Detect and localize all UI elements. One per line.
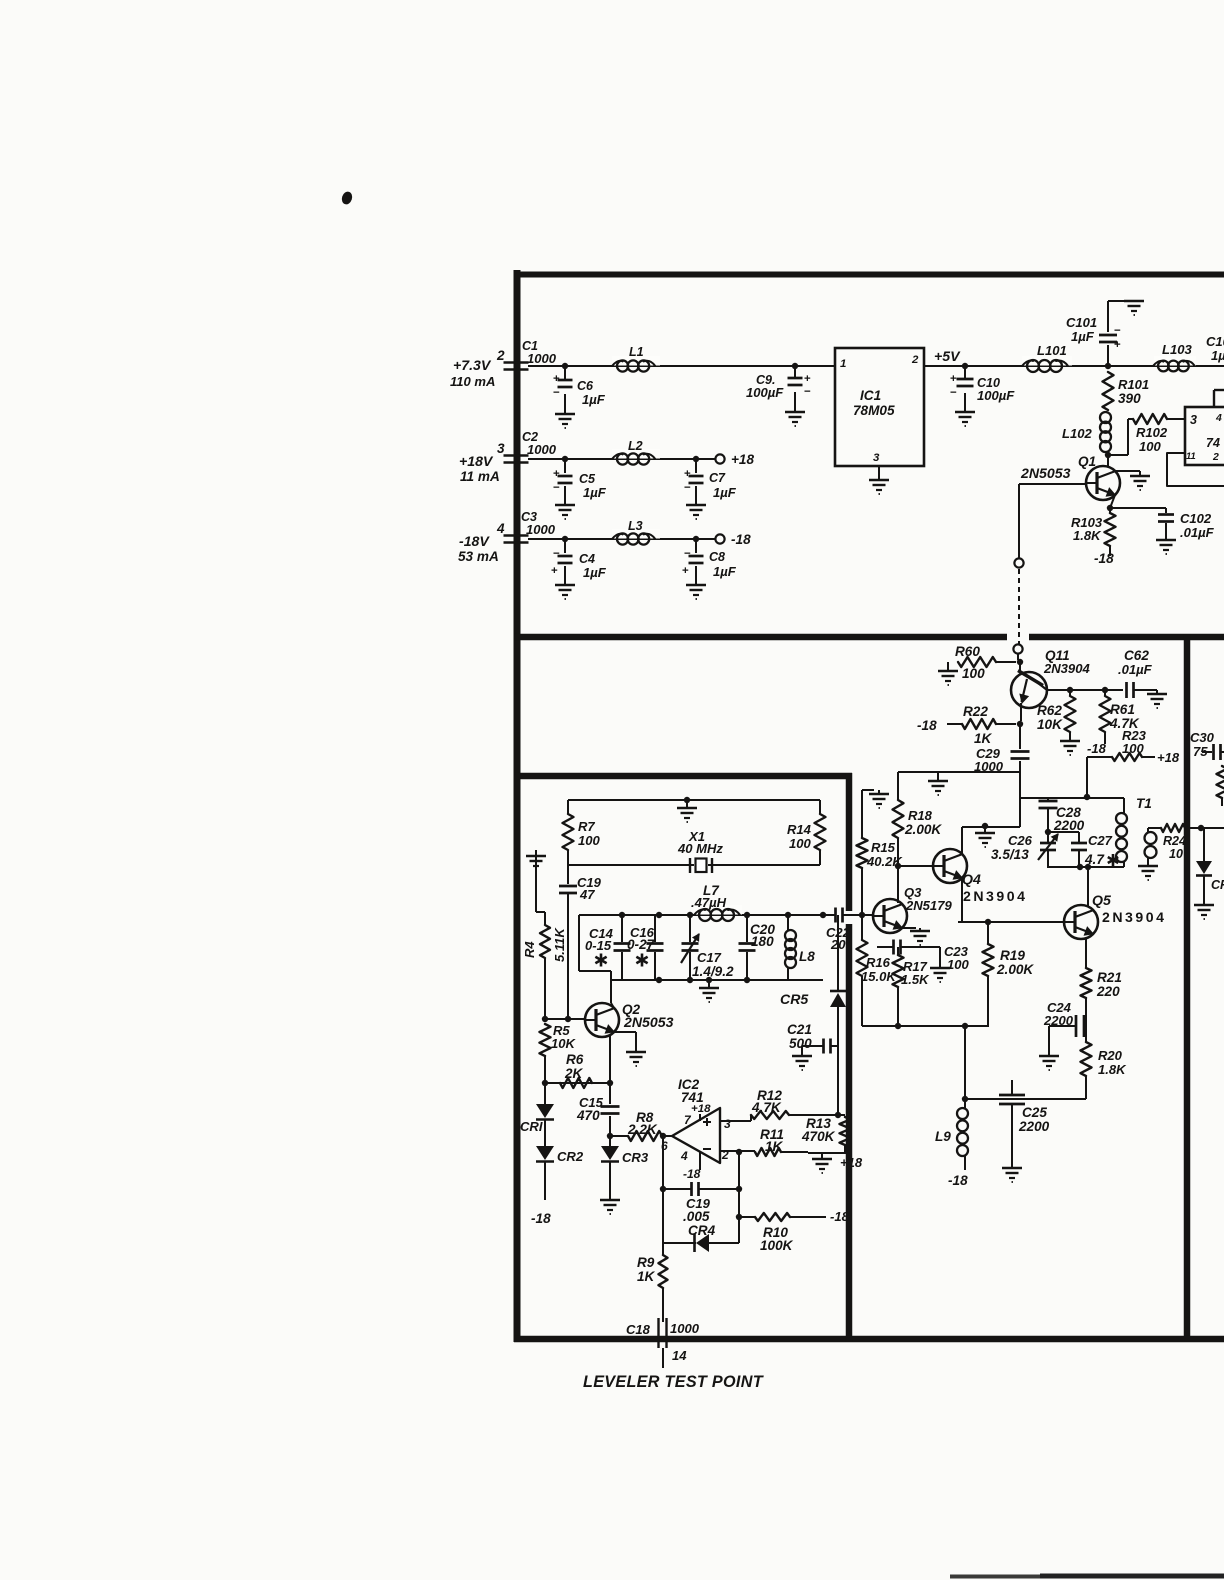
svg-text:180: 180 — [751, 934, 774, 949]
svg-text:1.8K: 1.8K — [1098, 1062, 1127, 1077]
svg-text:1.4/9.2: 1.4/9.2 — [692, 964, 734, 979]
svg-text:+: + — [950, 373, 957, 385]
svg-text:C7: C7 — [709, 471, 726, 485]
svg-text:1000: 1000 — [526, 522, 556, 537]
svg-text:11: 11 — [1186, 450, 1196, 461]
svg-text:R20: R20 — [1098, 1048, 1123, 1063]
svg-text:R21: R21 — [1097, 970, 1122, 985]
svg-text:+: + — [551, 565, 558, 577]
svg-text:4: 4 — [1215, 413, 1222, 424]
svg-text:-18: -18 — [531, 1211, 551, 1226]
svg-text:+: + — [682, 565, 689, 577]
svg-text:C104: C104 — [1206, 334, 1224, 349]
svg-text:1K: 1K — [765, 1139, 784, 1154]
svg-text:+: + — [684, 468, 691, 480]
svg-text:+: + — [553, 373, 560, 385]
svg-text:Q4: Q4 — [962, 871, 981, 887]
svg-text:C101: C101 — [1066, 315, 1097, 330]
svg-text:L8: L8 — [799, 949, 815, 964]
svg-text:1µF: 1µF — [583, 485, 607, 500]
svg-text:C5: C5 — [579, 472, 596, 486]
svg-text:-18: -18 — [830, 1209, 850, 1224]
svg-text:R14: R14 — [787, 822, 812, 837]
svg-text:1000: 1000 — [527, 442, 557, 457]
svg-text:78M05: 78M05 — [853, 403, 895, 418]
svg-text:CR4: CR4 — [688, 1223, 716, 1238]
svg-text:R9: R9 — [637, 1255, 655, 1270]
svg-text:-18: -18 — [1087, 741, 1107, 756]
svg-text:40 MHz: 40 MHz — [677, 841, 723, 856]
svg-text:2: 2 — [496, 348, 505, 363]
svg-text:0-27: 0-27 — [627, 937, 656, 952]
svg-text:10K: 10K — [1037, 717, 1063, 732]
svg-text:15.0K: 15.0K — [861, 969, 897, 984]
svg-text:R102: R102 — [1136, 425, 1168, 440]
svg-text:2200: 2200 — [1053, 818, 1085, 833]
svg-text:1µF: 1µF — [1211, 348, 1224, 363]
svg-text:53 mA: 53 mA — [458, 549, 499, 564]
svg-text:1µF: 1µF — [713, 485, 737, 500]
svg-text:4.7K: 4.7K — [751, 1100, 782, 1115]
svg-text:1000: 1000 — [670, 1321, 700, 1336]
svg-text:2.2K: 2.2K — [627, 1122, 658, 1137]
svg-text:-18V: -18V — [459, 533, 490, 549]
svg-text:CR3: CR3 — [622, 1150, 649, 1165]
svg-text:C4: C4 — [579, 552, 595, 566]
svg-text:3: 3 — [724, 1117, 731, 1131]
svg-text:100: 100 — [1122, 741, 1145, 756]
svg-text:4: 4 — [680, 1149, 688, 1163]
svg-text:C102: C102 — [1180, 511, 1212, 526]
svg-text:-18: -18 — [948, 1173, 968, 1188]
svg-text:2: 2 — [1212, 452, 1219, 463]
svg-text:10: 10 — [1169, 847, 1183, 861]
svg-text:−: − — [1114, 325, 1121, 337]
svg-text:Q5: Q5 — [1092, 892, 1112, 908]
svg-text:−: − — [684, 482, 691, 494]
svg-text:11 mA: 11 mA — [460, 469, 500, 484]
svg-text:R61: R61 — [1110, 702, 1135, 717]
svg-text:+5V: +5V — [934, 348, 961, 364]
svg-text:R101: R101 — [1118, 377, 1149, 392]
svg-text:1µF: 1µF — [583, 565, 607, 580]
svg-text:220: 220 — [1096, 984, 1120, 999]
svg-text:−: − — [553, 387, 560, 399]
svg-text:R7: R7 — [578, 819, 595, 834]
svg-text:−: − — [804, 386, 811, 398]
svg-text:47: 47 — [579, 887, 595, 902]
svg-text:CR2: CR2 — [557, 1149, 584, 1164]
svg-text:.01µF: .01µF — [1180, 525, 1215, 540]
svg-text:C30: C30 — [1190, 730, 1215, 745]
svg-text:+: + — [1114, 339, 1121, 351]
svg-text:+7.3V: +7.3V — [453, 357, 492, 373]
svg-text:L1: L1 — [629, 345, 644, 359]
svg-text:R19: R19 — [1000, 948, 1025, 963]
svg-text:R4: R4 — [522, 941, 537, 958]
svg-text:−: − — [950, 387, 957, 399]
svg-text:500: 500 — [789, 1036, 812, 1051]
svg-text:74: 74 — [1206, 436, 1220, 450]
svg-text:L2: L2 — [628, 439, 643, 453]
svg-text:R24: R24 — [1163, 834, 1186, 848]
svg-text:3.5/13: 3.5/13 — [991, 847, 1029, 862]
svg-text:100: 100 — [962, 666, 985, 681]
svg-text:2200: 2200 — [1043, 1013, 1074, 1028]
svg-text:10K: 10K — [551, 1036, 577, 1051]
svg-text:4: 4 — [496, 521, 505, 536]
svg-text:100µF: 100µF — [746, 385, 784, 400]
svg-text:.005: .005 — [683, 1209, 710, 1224]
svg-text:−: − — [553, 482, 560, 494]
svg-text:1: 1 — [840, 358, 846, 370]
svg-text:+18: +18 — [1157, 750, 1180, 765]
svg-text:C62: C62 — [1124, 648, 1149, 663]
svg-text:.01µF: .01µF — [1118, 662, 1153, 677]
svg-text:Q1: Q1 — [1078, 454, 1096, 469]
svg-text:5.11K: 5.11K — [552, 927, 567, 962]
svg-text:R6: R6 — [566, 1052, 584, 1067]
svg-text:3: 3 — [497, 441, 505, 456]
svg-text:+: + — [553, 468, 560, 480]
svg-text:470K: 470K — [801, 1129, 836, 1144]
svg-text:+18V: +18V — [459, 453, 494, 469]
svg-text:C21: C21 — [787, 1022, 812, 1037]
svg-text:100: 100 — [947, 957, 970, 972]
svg-text:IC1: IC1 — [860, 388, 881, 403]
svg-text:C26: C26 — [1008, 833, 1033, 848]
svg-text:100: 100 — [1139, 439, 1162, 454]
svg-text:CRI: CRI — [520, 1119, 543, 1134]
svg-text:-18: -18 — [683, 1167, 701, 1181]
svg-text:L9: L9 — [935, 1129, 951, 1144]
svg-text:2.00K: 2.00K — [996, 962, 1034, 977]
svg-text:3: 3 — [873, 452, 880, 464]
svg-text:1µF: 1µF — [1071, 329, 1095, 344]
svg-text:-18: -18 — [731, 532, 751, 547]
svg-text:T1: T1 — [1136, 796, 1152, 811]
svg-text:1.8K: 1.8K — [1073, 528, 1102, 543]
svg-text:1000: 1000 — [527, 351, 557, 366]
svg-text:CR5: CR5 — [780, 991, 809, 1007]
svg-text:2N3904: 2N3904 — [1102, 909, 1166, 925]
svg-text:0-15: 0-15 — [585, 938, 612, 953]
svg-text:C25: C25 — [1022, 1105, 1047, 1120]
svg-text:C8: C8 — [709, 550, 725, 564]
svg-text:100: 100 — [789, 836, 812, 851]
svg-text:1µF: 1µF — [582, 392, 606, 407]
svg-text:2: 2 — [911, 354, 919, 366]
svg-text:+18: +18 — [731, 452, 754, 467]
svg-text:C6: C6 — [577, 379, 594, 393]
svg-text:C27: C27 — [1088, 833, 1113, 848]
svg-text:2N5053: 2N5053 — [1020, 465, 1071, 481]
svg-text:C18: C18 — [626, 1322, 651, 1337]
svg-text:100µF: 100µF — [977, 388, 1015, 403]
svg-text:R16: R16 — [866, 955, 891, 970]
svg-text:CR: CR — [1211, 878, 1224, 892]
svg-text:110 mA: 110 mA — [450, 374, 495, 389]
svg-text:L102: L102 — [1062, 426, 1092, 441]
svg-text:LEVELER TEST POINT: LEVELER TEST POINT — [583, 1373, 765, 1391]
svg-text:14: 14 — [672, 1348, 687, 1363]
svg-text:2N3904: 2N3904 — [1043, 661, 1090, 676]
svg-text:2200: 2200 — [1018, 1119, 1050, 1134]
svg-text:C17: C17 — [697, 950, 722, 965]
svg-text:R18: R18 — [908, 808, 933, 823]
svg-text:1µF: 1µF — [713, 564, 737, 579]
svg-text:390: 390 — [1118, 391, 1141, 406]
svg-text:−: − — [553, 548, 560, 560]
svg-text:100K: 100K — [760, 1238, 794, 1253]
svg-text:100: 100 — [578, 833, 601, 848]
svg-text:L103: L103 — [1162, 342, 1192, 357]
svg-text:+18: +18 — [840, 1155, 863, 1170]
svg-text:−: − — [684, 548, 691, 560]
svg-text:.47µH: .47µH — [691, 895, 727, 910]
svg-text:1K: 1K — [974, 731, 993, 746]
svg-text:L3: L3 — [628, 519, 643, 533]
svg-text:2K: 2K — [564, 1066, 584, 1081]
svg-text:-18: -18 — [1094, 551, 1114, 566]
svg-text:+: + — [804, 373, 811, 385]
svg-text:R22: R22 — [963, 704, 988, 719]
svg-text:1K: 1K — [637, 1269, 656, 1284]
svg-text:-18: -18 — [917, 718, 937, 733]
svg-text:741: 741 — [681, 1090, 704, 1105]
svg-text:R62: R62 — [1037, 703, 1062, 718]
svg-text:470: 470 — [576, 1108, 600, 1123]
svg-text:2N5179: 2N5179 — [905, 898, 952, 913]
svg-text:R60: R60 — [955, 644, 980, 659]
svg-text:L101: L101 — [1037, 343, 1067, 358]
svg-text:1.5K: 1.5K — [901, 972, 930, 987]
svg-text:2N3904: 2N3904 — [963, 888, 1027, 904]
svg-text:3: 3 — [1190, 413, 1197, 427]
svg-text:2N5053: 2N5053 — [623, 1014, 674, 1030]
svg-text:2.00K: 2.00K — [904, 822, 942, 837]
svg-text:R15: R15 — [871, 840, 896, 855]
